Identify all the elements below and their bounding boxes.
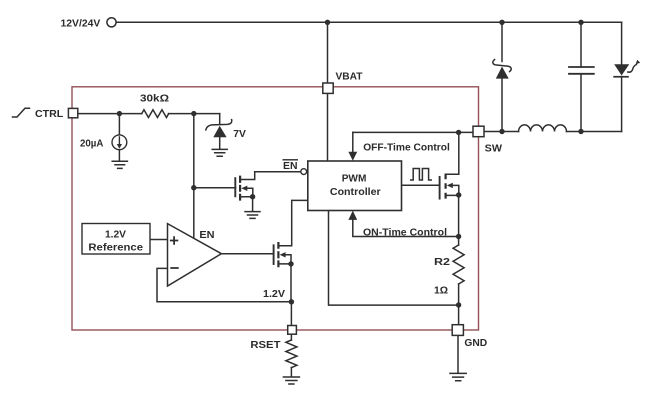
svg-text:R2: R2 (434, 256, 450, 268)
svg-text:1.2V: 1.2V (105, 229, 126, 241)
svg-text:PWM: PWM (342, 172, 367, 184)
svg-text:CTRL: CTRL (35, 108, 64, 120)
svg-text:ON-Time Control: ON-Time Control (363, 226, 447, 238)
svg-text:SW: SW (485, 142, 502, 154)
svg-text:1.2V: 1.2V (263, 288, 285, 300)
svg-text:VBAT: VBAT (336, 70, 364, 82)
svg-text:GND: GND (464, 337, 487, 349)
svg-text:OFF-Time Control: OFF-Time Control (363, 141, 450, 153)
svg-text:1Ω: 1Ω (434, 285, 448, 297)
svg-text:EN: EN (283, 160, 298, 172)
svg-text:Controller: Controller (330, 186, 381, 198)
svg-text:20µA: 20µA (80, 138, 104, 150)
svg-text:EN: EN (199, 229, 214, 241)
svg-text:RSET: RSET (250, 339, 281, 351)
svg-text:Reference: Reference (88, 242, 143, 254)
svg-text:12V/24V: 12V/24V (61, 18, 101, 30)
svg-text:30kΩ: 30kΩ (140, 93, 169, 105)
svg-text:7V: 7V (233, 128, 246, 140)
